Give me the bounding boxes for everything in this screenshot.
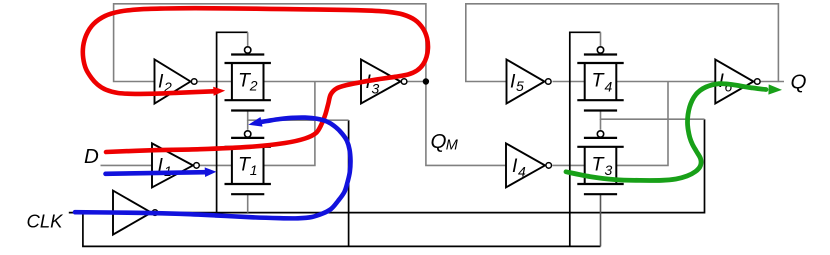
wire node QM: junction down then right to I4 input: [426, 82, 506, 166]
wire I1 output to T1 input: [200, 164, 232, 166]
wire T2 pmos bubble stem: [247, 32, 249, 46]
label I1: [158, 155, 172, 180]
wire CLK input: [69, 212, 113, 214]
inverter I4: [506, 143, 552, 187]
inverter clock buffer: [113, 191, 158, 235]
red feedback path arrow: [83, 8, 428, 152]
transmission gate T1: [225, 131, 271, 194]
svg-text:M: M: [446, 137, 459, 153]
node QM junction dot: [423, 78, 429, 84]
wire T1 nmos stem to inverted clock: [247, 194, 249, 212]
label D: [84, 145, 99, 168]
label I2: [158, 71, 172, 95]
wire T3 output up to slave output node: [616, 82, 668, 166]
wire I6 output to Q: [761, 81, 779, 83]
transmission gate T3: [577, 131, 623, 194]
wire T1 output up to master internal node: [264, 82, 315, 166]
svg-text:Q: Q: [431, 130, 447, 153]
svg-text:3: 3: [372, 80, 380, 96]
label T3: [592, 154, 613, 178]
inverter I2: [155, 60, 198, 104]
wire T3 pmos stem: [600, 119, 602, 130]
svg-text:T: T: [592, 154, 606, 176]
green arrowhead at Q: [768, 84, 782, 94]
wire T4 output to I6 input: [616, 81, 715, 83]
inverter I3: [361, 60, 407, 104]
label Q: [791, 71, 807, 94]
green output path arrow: [566, 84, 766, 181]
blue arrowhead at T1 input: [205, 167, 217, 177]
label I4: [512, 155, 526, 180]
wire I5 output to T4 input: [553, 81, 585, 83]
inverter I6: [715, 60, 760, 104]
wire master feedback box: I3 output up, along top, down to I2 input: [114, 4, 426, 82]
inverter I5: [507, 60, 552, 104]
label I5: [510, 71, 524, 94]
label T1: [238, 154, 258, 178]
transmission gate T4: [577, 47, 623, 111]
wire T4 pmos gate clock: down left side of slave cell: [570, 32, 601, 246]
svg-text:2: 2: [249, 77, 258, 93]
svg-text:D: D: [84, 145, 99, 168]
wire T4 pmos bubble stem: [600, 32, 602, 46]
transmission gate T2: [225, 47, 271, 111]
svg-text:Q: Q: [791, 71, 807, 94]
label I3: [366, 71, 380, 96]
svg-text:1: 1: [250, 162, 258, 178]
blue arrowhead at T1 pmos gate: [248, 117, 262, 127]
blue D path arrow: [106, 172, 207, 174]
svg-text:3: 3: [605, 162, 613, 178]
svg-text:T: T: [592, 70, 606, 92]
wire T1 pmos stem: [247, 120, 249, 130]
red arrowhead at T2 input: [213, 87, 225, 96]
blue clock path arrow: [75, 118, 351, 219]
svg-text:4: 4: [518, 163, 526, 179]
wire I2 output to T2 input: [198, 81, 232, 83]
label QM: [431, 130, 459, 153]
label T2: [238, 70, 258, 94]
wire master clk-true riser: [348, 120, 350, 246]
svg-text:5: 5: [516, 78, 524, 94]
wire T3 nmos stem to clk-true: [600, 194, 602, 246]
wire I4 output to T3 input: [553, 164, 585, 166]
wire slave feedback box: Q up, along top, down to I5 input: [466, 4, 784, 82]
wire T4 nmos / T3 pmos gate link: [601, 111, 705, 120]
wire T2 nmos / T1 pmos gate link: [248, 111, 349, 121]
svg-text:CLK: CLK: [27, 211, 65, 232]
wire T2 output to I3 input: [264, 81, 362, 83]
wire T2 pmos gate clock: down left side of master cell: [217, 32, 248, 212]
wire CLK true branch down and along bottom to T3 gate: [83, 213, 601, 247]
label CLK: [27, 211, 65, 232]
label T4: [592, 70, 613, 95]
wire I3 output to node QM: [408, 81, 426, 83]
inverter I1: [152, 143, 199, 187]
wire inverted clock from buffer output to slave: [159, 119, 705, 212]
wire D input to I1: [101, 164, 153, 166]
label I6: [719, 70, 733, 95]
svg-text:4: 4: [605, 78, 613, 94]
